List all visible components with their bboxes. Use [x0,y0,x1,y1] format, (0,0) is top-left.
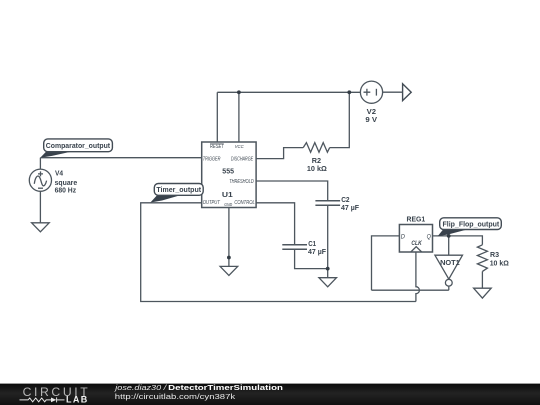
svg-text:NOT1: NOT1 [440,258,460,267]
capacitor C1 [282,245,307,250]
wire C2 bottom to ground [327,205,329,277]
ground under C2 [319,278,337,287]
wire CLK riser with hop [416,252,420,302]
wire NOT1 bubble to loop [448,286,450,290]
logic inverter NOT1 [435,255,463,286]
wire Q net [432,236,483,245]
wire V4 bottom stub [39,191,41,223]
wire top supply bus [217,91,360,93]
wire GND pin down [228,208,230,267]
flip-flop REG1 body [399,225,432,253]
wire RESET riser [216,92,218,142]
svg-text:V4: V4 [55,169,63,178]
svg-text:10 kΩ: 10 kΩ [490,258,509,267]
svg-text:TRIGGER: TRIGGER [203,156,221,162]
resistor R3 [477,245,487,272]
wire THRESHOLD to C2 [256,181,328,201]
svg-text:47 µF: 47 µF [341,203,360,212]
node junction top bus / VCC [237,90,241,94]
svg-text:680 Hz: 680 Hz [55,185,77,194]
wire VCC riser [238,92,240,142]
wire TRIGGER net [40,157,201,159]
svg-text:RESET: RESET [210,144,225,150]
svg-text:D: D [401,234,405,241]
svg-text:http://circuitlab.com/cyn387k: http://circuitlab.com/cyn387k [115,392,236,401]
svg-text:THRESHOLD: THRESHOLD [229,179,254,185]
wire V4 top stub [39,158,41,170]
clock edge triangle [411,247,422,252]
voltage source V4 [29,169,51,191]
capacitor C2 [315,201,340,206]
wire R3 to ground [481,271,483,288]
node junction Q / NOT1 input [447,234,451,238]
svg-text:U1: U1 [222,190,233,199]
svg-text:DISCHARGE: DISCHARGE [231,156,254,162]
net flag Comparator_output [40,139,112,158]
wire NOT1 output to D loop [372,289,449,291]
svg-text:Comparator_output: Comparator_output [46,143,111,150]
svg-text:CLK: CLK [411,241,422,247]
svg-text:LAB: LAB [66,394,88,404]
net flag output pin at V2 [403,84,412,101]
net flag Flip_Flop_output [438,218,502,237]
svg-text:47 µF: 47 µF [308,247,327,256]
node junction top bus / R2 [347,90,351,94]
svg-text:Q: Q [427,234,432,241]
wire OUTPUT loop long bottom wire [141,203,416,302]
wire R2 to bus riser [330,92,350,147]
wire DISCHARGE jog to R2 [256,148,303,159]
node dot on GND wire [227,256,231,260]
ground under R3 [474,288,492,298]
wire CONTROL to C1 [256,203,295,245]
logo schematic squiggle with diode [20,397,65,402]
wire C1 bottom to C2 bottom [295,249,328,268]
svg-text:10 kΩ: 10 kΩ [307,164,327,173]
svg-text:OUTPUT: OUTPUT [203,200,221,206]
svg-text:REG1: REG1 [407,215,426,224]
svg-text:9 V: 9 V [365,115,377,124]
net flag Timer_output [150,184,203,203]
voltage source V2 [360,81,382,103]
node junction C1/C2 ground [326,267,330,271]
wire D feedback loop [372,236,400,290]
svg-text:Flip_Flop_output: Flip_Flop_output [443,221,500,228]
svg-text:VCC: VCC [235,144,245,149]
svg-text:GND: GND [224,202,232,207]
wire V2 to flag [383,91,403,93]
ground under 555 GND [220,266,238,275]
ground under V4 [32,223,50,232]
footer bar [0,384,540,405]
wire NOT1 input stub [448,236,450,255]
IC U1 555 timer body [202,142,256,208]
resistor R2 [303,143,330,153]
svg-text:Timer_output: Timer_output [156,187,201,194]
svg-text:555: 555 [222,166,234,175]
svg-text:CONTROL: CONTROL [234,200,255,206]
